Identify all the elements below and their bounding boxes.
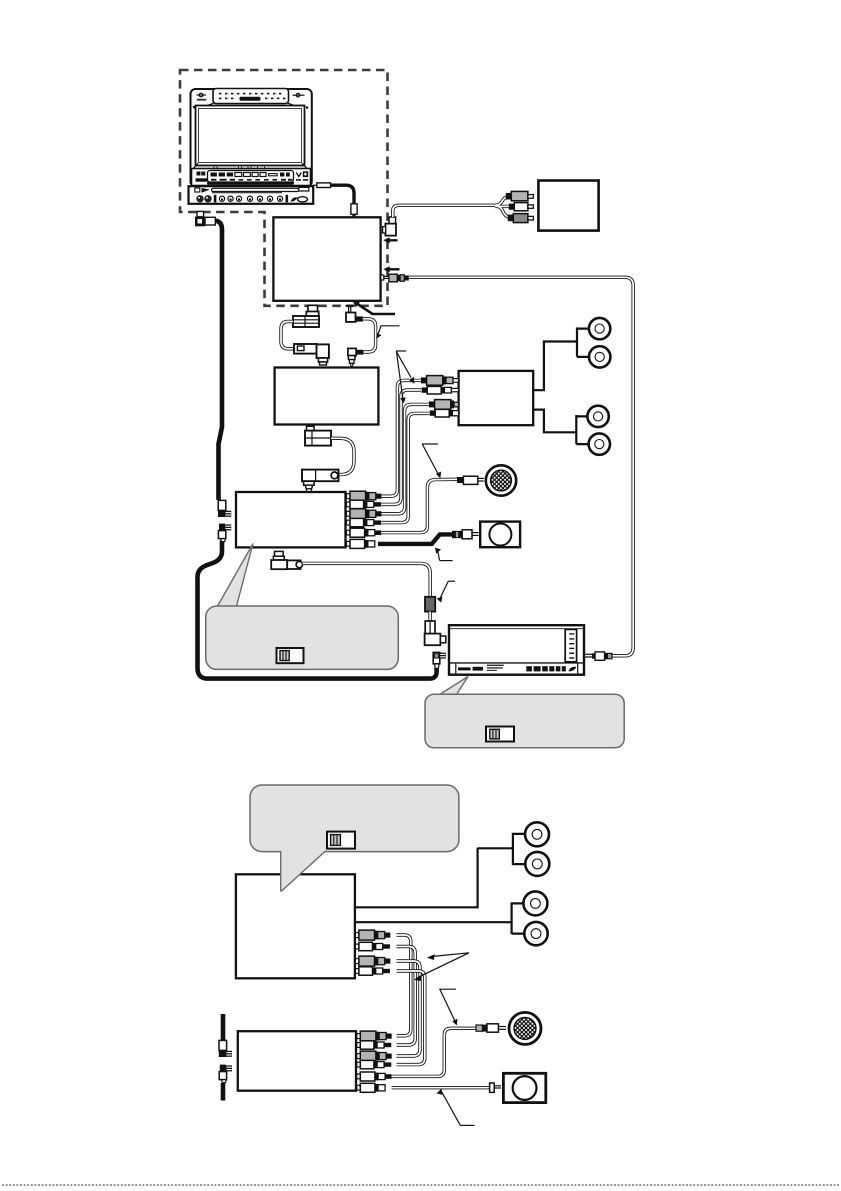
IP-bus lower lead [428, 612, 431, 622]
bottom speaker wire upper pair [355, 848, 513, 907]
right-angle plug into changer [425, 621, 446, 645]
bottom box2 RCA row4 plug [357, 1060, 392, 1068]
display unit box B [538, 181, 598, 231]
head unit control bar right icons [296, 171, 308, 181]
gray callout 3 [250, 785, 459, 852]
speaker S4 [589, 433, 610, 454]
bottom box2 RCA row2 plug [357, 1041, 392, 1049]
bottom box2 RCA row6 plug [357, 1083, 385, 1092]
cable C1 AV-bus row1 to amp [381, 380, 421, 496]
steering remote box with circle [480, 522, 520, 548]
head unit disc slot [212, 187, 309, 192]
bottom steering remote box [503, 1073, 545, 1102]
bottom box2 RCA row3 plug [357, 1051, 392, 1061]
AV-bus connector box (middle) [236, 492, 346, 547]
bottom leader arrows to cables [414, 953, 469, 981]
IP-bus inline adapter (dark) [425, 597, 435, 612]
head unit left corner icon [197, 93, 207, 100]
insertion arrow at box A lower jack [383, 266, 399, 272]
bottom TV tuner box [236, 874, 355, 978]
microphone cable from row5 [381, 479, 457, 532]
antenna lead right lower plug [348, 348, 364, 367]
speaker bracket upper [577, 327, 589, 357]
bottom speaker S5 [525, 822, 549, 846]
antenna adapter assembly left [293, 305, 319, 327]
gray callout 1 [206, 606, 399, 669]
bottom tuner RCA row4 plug [355, 967, 390, 975]
insertion arrow at box A upper jack [383, 237, 397, 243]
head unit base knobs [196, 195, 216, 203]
hide-away unit box A [273, 217, 380, 300]
RCA plug set into display box: white [509, 203, 534, 211]
wire to 3-RCA video lead [393, 196, 511, 217]
connector pair into AV-bus box left side [218, 500, 231, 541]
cable C3 AV-bus row3 to amp [381, 404, 429, 513]
power cable lower run [198, 541, 437, 679]
tuner link lower connector into AV-bus box [302, 470, 339, 492]
bottom speaker bracket lower [512, 902, 524, 934]
antenna adapter left lower body [294, 344, 329, 365]
microphone DIN connector [486, 465, 516, 495]
head unit screen bezel [193, 106, 308, 169]
bottom power stub upper [221, 1014, 226, 1041]
leader L4 to guide cable [435, 548, 453, 561]
TV tuner box [275, 368, 379, 425]
head unit control bar left icon [196, 172, 208, 182]
head unit tick marks [214, 167, 265, 170]
AV-bus RCA row1 plug [347, 491, 382, 501]
head unit base round buttons [219, 196, 282, 201]
guide cable inline plug [452, 530, 479, 539]
bottom power stub lower [221, 1083, 226, 1101]
AV-bus RCA row2 plug [347, 500, 382, 508]
bottom speaker wire lower pair [355, 921, 512, 923]
bottom speaker S8 [524, 922, 547, 945]
bottom tuner RCA row1 plug [355, 930, 390, 940]
leader line L1 to antenna adapter [376, 326, 399, 339]
bottom cable D1 tuner row1 to box2 [397, 935, 411, 1036]
bottom tuner RCA row2 plug [355, 942, 390, 950]
microphone cable plug [457, 476, 484, 484]
head unit top grille strip [207, 89, 295, 106]
wire from head unit to box A [313, 183, 358, 217]
speaker S3 [587, 406, 608, 427]
bottom speaker S7 [523, 891, 547, 915]
leader L3 to mic cable [422, 444, 441, 478]
bottom speaker bracket upper [513, 833, 525, 865]
RCA plug set into display box: red [508, 214, 534, 223]
bottom microphone cable [392, 1028, 477, 1076]
bottom guide plug [490, 1083, 501, 1092]
head unit base right oval buttons [291, 197, 308, 202]
tuner output plug below tuner [305, 426, 331, 445]
callout 2 switch icon [486, 727, 514, 742]
AV-bus RCA row3 plug [347, 509, 382, 519]
RCA plug set into display box: yellow [506, 191, 534, 200]
bottom speaker S6 [525, 852, 549, 876]
bottom cable D4 tuner row4 to box2 [397, 971, 425, 1065]
AV-bus RCA row5 plug [347, 528, 382, 537]
thick leader arrow into box A bottom [352, 300, 395, 314]
gray callout 3 pointer [281, 851, 326, 892]
guide cable from row6 (black) [378, 534, 452, 544]
head unit control buttons row [211, 173, 293, 181]
cable C4 AV-bus row4 to amp [381, 413, 429, 522]
page footer dashed rule [2, 1184, 839, 1186]
power cable upper run [215, 221, 222, 500]
bottom cable D3 tuner row3 to box2 [397, 961, 421, 1056]
leader L5 to IP-bus adapter [437, 581, 455, 602]
RCA plug at box A monitor-out jack [381, 274, 409, 282]
gray callout 2 pointer [439, 677, 469, 696]
RCA plug into CD changer right jack [585, 652, 612, 660]
bottom connector pair into box2 left [219, 1040, 232, 1082]
changer front buttons [526, 666, 576, 671]
callout 1 switch icon [277, 648, 304, 663]
antenna adapter left loop wire [281, 322, 294, 349]
bottom microphone plug [476, 1024, 506, 1032]
amp input RCA pair lower [429, 400, 459, 417]
changer magazine door panel [565, 629, 576, 661]
CD changer unit [449, 625, 584, 675]
gray callout 1 pointer [217, 544, 254, 609]
callout 3 switch icon [327, 832, 355, 849]
head unit grille vent dots [219, 93, 285, 99]
tuner link loop wire [331, 438, 354, 474]
bottom box2 RCA row1 plug [357, 1031, 392, 1041]
bottom leader to mic cable [439, 989, 457, 1025]
bottom guide cable from row6 [392, 1086, 490, 1089]
speaker wire upper pair [533, 342, 577, 391]
leader L2 double arrow to cables [396, 351, 415, 403]
bottom tuner RCA row3 plug [355, 956, 390, 966]
IP-bus cable to changer [303, 563, 431, 597]
IP-bus connector below AV-bus box [271, 551, 302, 569]
speaker bracket lower [576, 415, 588, 444]
speaker S1 [589, 318, 610, 339]
long loop wire to CD changer [409, 277, 633, 656]
bottom AV-bus connector box [238, 1031, 356, 1091]
bottom leader to guide cable [436, 1089, 474, 1126]
amplifier box [459, 371, 534, 425]
head unit control bar [192, 169, 311, 186]
bottom box2 RCA row5 plug [357, 1072, 392, 1081]
amp input RCA pair upper [421, 376, 459, 394]
bottom microphone DIN connector [509, 1012, 541, 1044]
head unit base eject glyph [195, 188, 210, 193]
head unit U1 body [189, 89, 314, 204]
power lead plug into changer [433, 652, 446, 668]
AV-bus RCA row6 plug [347, 539, 375, 548]
power supply plug P1 [195, 211, 215, 226]
head unit right corner icon [293, 93, 305, 97]
speaker wire lower pair [533, 410, 576, 433]
antenna lead assembly right [346, 306, 363, 322]
speaker S2 [589, 346, 610, 367]
gray callout 2 [425, 694, 624, 748]
head unit brand label bar [240, 97, 261, 101]
dashed installation boundary outline [180, 70, 388, 306]
cable C2 AV-bus row2 to amp [381, 390, 421, 504]
bottom cable D2 tuner row2 to box2 [397, 947, 416, 1046]
antenna lead right loop wire [363, 319, 376, 352]
changer front labels [458, 665, 504, 671]
head unit panel bottom shadow bar [207, 182, 294, 185]
connector on box A top right for RCA lead [383, 217, 396, 236]
AV-bus RCA row4 plug [347, 518, 382, 526]
